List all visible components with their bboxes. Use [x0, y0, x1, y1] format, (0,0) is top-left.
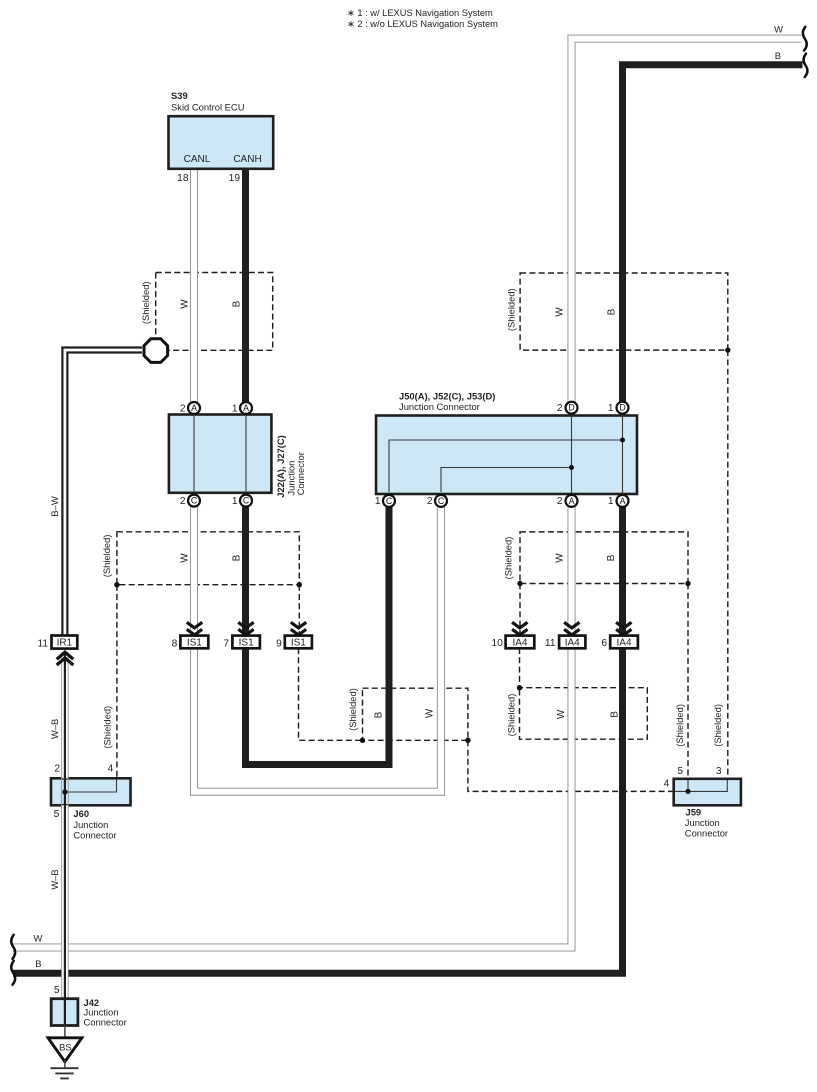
svg-text:7: 7 [223, 639, 229, 650]
svg-text:B: B [232, 554, 243, 561]
svg-text:B: B [35, 958, 41, 969]
svg-text:B: B [374, 711, 385, 718]
svg-text:W–B: W–B [49, 719, 60, 739]
svg-text:IA4: IA4 [617, 638, 632, 649]
svg-text:Connector: Connector [685, 827, 728, 838]
svg-text:(Shielded): (Shielded) [505, 288, 516, 331]
svg-text:(Shielded): (Shielded) [712, 704, 723, 747]
svg-text:C: C [386, 496, 393, 506]
svg-text:3: 3 [716, 766, 722, 777]
svg-text:Connector: Connector [295, 452, 306, 495]
svg-text:Junction: Junction [73, 819, 108, 830]
svg-text:W: W [34, 932, 43, 943]
svg-text:Connector: Connector [73, 830, 116, 841]
svg-text:C: C [243, 496, 250, 506]
svg-text:W: W [556, 709, 567, 719]
svg-text:10: 10 [491, 638, 503, 649]
svg-text:W: W [555, 307, 566, 317]
svg-text:B: B [606, 554, 617, 561]
svg-text:IS1: IS1 [187, 638, 202, 649]
svg-text:D: D [568, 403, 574, 413]
svg-text:B–W: B–W [49, 496, 60, 516]
svg-text:5: 5 [54, 985, 60, 996]
svg-text:11: 11 [545, 638, 556, 649]
svg-text:A: A [569, 496, 575, 506]
svg-text:B: B [607, 308, 618, 315]
svg-text:B: B [610, 711, 621, 718]
svg-text:∗ 1 : w/ LEXUS Navigation Syst: ∗ 1 : w/ LEXUS Navigation System [347, 8, 493, 18]
svg-text:C: C [191, 496, 198, 506]
svg-text:S39: S39 [171, 90, 188, 101]
svg-text:1: 1 [232, 496, 238, 507]
svg-text:Connector: Connector [84, 1016, 127, 1027]
svg-text:2: 2 [180, 403, 186, 414]
svg-text:∗ 2 : w/o LEXUS Navigation Sys: ∗ 2 : w/o LEXUS Navigation System [347, 19, 498, 29]
svg-text:(Shielded): (Shielded) [506, 694, 517, 737]
svg-text:2: 2 [54, 764, 60, 775]
svg-text:(Shielded): (Shielded) [503, 537, 514, 580]
svg-text:W: W [179, 553, 190, 563]
svg-text:Junction Connector: Junction Connector [399, 401, 480, 412]
svg-text:2: 2 [427, 496, 433, 507]
svg-text:9: 9 [276, 639, 282, 650]
svg-text:11: 11 [38, 639, 49, 650]
svg-text:IA4: IA4 [512, 638, 527, 649]
svg-text:W: W [555, 553, 566, 563]
svg-text:A: A [620, 496, 626, 506]
svg-text:D: D [619, 403, 625, 413]
svg-text:BS: BS [59, 1042, 72, 1053]
svg-text:2: 2 [180, 496, 186, 507]
svg-text:1: 1 [232, 403, 238, 414]
svg-text:(Shielded): (Shielded) [101, 535, 112, 578]
svg-text:B: B [232, 300, 243, 307]
svg-text:Skid Control ECU: Skid Control ECU [171, 102, 245, 113]
svg-text:(Shielded): (Shielded) [101, 706, 112, 749]
svg-text:IS1: IS1 [291, 638, 306, 649]
svg-text:A: A [243, 403, 249, 413]
svg-text:4: 4 [108, 764, 114, 775]
svg-text:4: 4 [664, 779, 670, 790]
svg-text:CANH: CANH [233, 154, 261, 165]
svg-text:W: W [774, 24, 783, 35]
svg-text:1: 1 [608, 496, 614, 507]
svg-text:1: 1 [608, 403, 614, 414]
svg-text:8: 8 [172, 639, 178, 650]
svg-text:W–B: W–B [49, 869, 60, 889]
svg-text:19: 19 [229, 173, 241, 184]
svg-text:W: W [425, 708, 436, 718]
svg-text:C: C [438, 496, 445, 506]
svg-text:18: 18 [177, 173, 189, 184]
svg-text:B: B [775, 50, 781, 61]
svg-text:IR1: IR1 [57, 638, 73, 649]
svg-text:Junction: Junction [685, 817, 720, 828]
svg-text:6: 6 [601, 638, 607, 649]
svg-text:(Shielded): (Shielded) [674, 704, 685, 747]
svg-text:2: 2 [557, 496, 563, 507]
svg-text:J60: J60 [73, 808, 89, 819]
svg-text:IA4: IA4 [565, 638, 580, 649]
svg-text:W: W [179, 299, 190, 309]
svg-text:2: 2 [557, 403, 563, 414]
svg-text:1: 1 [375, 496, 381, 507]
svg-text:A: A [191, 403, 197, 413]
svg-text:IS1: IS1 [239, 638, 254, 649]
svg-text:5: 5 [677, 766, 683, 777]
svg-text:CANL: CANL [184, 154, 211, 165]
svg-text:(Shielded): (Shielded) [140, 281, 151, 324]
svg-text:5: 5 [54, 809, 60, 820]
svg-text:(Shielded): (Shielded) [347, 688, 358, 731]
